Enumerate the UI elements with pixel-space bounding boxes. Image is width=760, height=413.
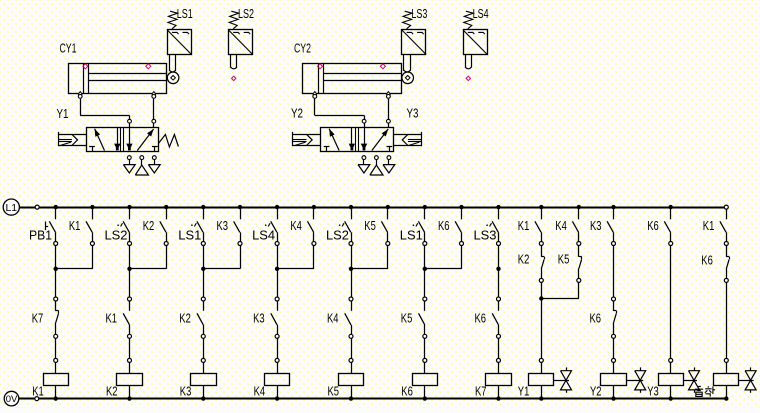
- svg-text:K2: K2: [143, 219, 155, 233]
- svg-text:K4: K4: [290, 219, 302, 233]
- svg-text:LS4: LS4: [252, 228, 275, 242]
- svg-text:K6: K6: [475, 312, 487, 326]
- svg-text:K7: K7: [32, 312, 44, 326]
- svg-text:LS1: LS1: [177, 7, 193, 21]
- svg-text:Y3: Y3: [407, 107, 419, 121]
- svg-text:K6: K6: [438, 219, 450, 233]
- svg-text:K2: K2: [179, 312, 191, 326]
- svg-text:K1: K1: [69, 219, 81, 233]
- svg-text:K1: K1: [703, 219, 715, 233]
- svg-text:K5: K5: [558, 253, 570, 267]
- svg-text:K5: K5: [401, 312, 413, 326]
- svg-text:K3: K3: [180, 385, 192, 399]
- svg-text:K5: K5: [328, 385, 340, 399]
- svg-text:Y1: Y1: [57, 107, 69, 121]
- svg-text:LS2: LS2: [326, 228, 349, 242]
- svg-text:K1: K1: [32, 385, 44, 399]
- svg-text:K6: K6: [647, 219, 659, 233]
- svg-text:K4: K4: [555, 219, 567, 233]
- svg-text:CY1: CY1: [60, 42, 77, 56]
- svg-text:K3: K3: [217, 219, 229, 233]
- svg-text:K5: K5: [364, 219, 376, 233]
- svg-text:K2: K2: [106, 385, 118, 399]
- svg-text:K7: K7: [475, 385, 487, 399]
- svg-text:LS4: LS4: [473, 7, 489, 21]
- svg-text:LS2: LS2: [105, 228, 128, 242]
- svg-text:K3: K3: [253, 312, 265, 326]
- svg-text:0V: 0V: [6, 394, 18, 405]
- svg-text:LS1: LS1: [178, 228, 201, 242]
- svg-text:K4: K4: [254, 385, 266, 399]
- svg-text:K1: K1: [106, 312, 118, 326]
- svg-text:K6: K6: [701, 254, 713, 268]
- svg-text:L1: L1: [5, 202, 17, 214]
- svg-text:LS1: LS1: [400, 228, 423, 242]
- svg-text:Y2: Y2: [590, 385, 602, 399]
- svg-text:K6: K6: [401, 385, 413, 399]
- svg-text:CY2: CY2: [294, 42, 311, 56]
- svg-text:K6: K6: [590, 312, 602, 326]
- svg-text:LS2: LS2: [238, 7, 254, 21]
- svg-text:PB1: PB1: [29, 228, 52, 242]
- svg-text:Y3: Y3: [647, 385, 659, 399]
- svg-text:Y1: Y1: [518, 385, 530, 399]
- svg-text:LS3: LS3: [411, 7, 427, 21]
- svg-text:LS3: LS3: [474, 228, 497, 242]
- svg-text:K1: K1: [518, 219, 530, 233]
- svg-text:K3: K3: [590, 219, 602, 233]
- svg-text:K4: K4: [327, 312, 339, 326]
- svg-text:Y2: Y2: [291, 107, 303, 121]
- svg-text:K2: K2: [518, 253, 530, 267]
